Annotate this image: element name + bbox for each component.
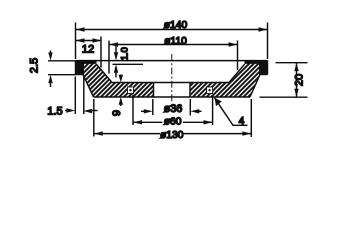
svg-text:ø36: ø36: [164, 103, 183, 115]
right lower cone edge: [250, 75, 260, 98]
dim ø110 line: [109, 42, 238, 46]
bottom face line: [94, 96, 251, 98]
bore right wall: [189, 83, 191, 98]
left lower cone edge: [83, 75, 94, 98]
dim ø36 left arrow: [141, 109, 153, 113]
dim 9 upper arrow: [119, 75, 123, 83]
thin blackened rim section right: [245, 60, 268, 74]
dim 1.0 upper arrow: [114, 45, 118, 61]
dim ø140 extension line left: [75, 23, 77, 60]
dim ø130 extension line right: [250, 99, 252, 137]
dim 1.5 extension line left: [74, 77, 76, 115]
dim ø36 extension line right: [189, 99, 191, 116]
dim 1.5 left arrow: [65, 108, 75, 112]
svg-text:ø60: ø60: [164, 116, 182, 127]
dim 1.0 lower arrow: [114, 64, 118, 77]
dim ø36 right arrow: [190, 109, 201, 113]
pin hole section left (square with axis dot): [128, 87, 134, 94]
section body right (hatched): [190, 60, 268, 97]
left outer wall edge: [75, 60, 77, 74]
dim 1.5 extension line right: [83, 77, 85, 115]
pin hole section right (square with axis dot): [207, 87, 213, 94]
svg-text:4: 4: [239, 116, 245, 127]
svg-text:ø130: ø130: [160, 130, 184, 141]
section body left (hatched): [76, 60, 154, 97]
svg-text:1.5: 1.5: [47, 105, 63, 117]
dim ø60 extension line left: [132, 95, 134, 126]
dim 1.5 right arrow: [83, 109, 97, 113]
dim 9 lower arrow: [119, 97, 123, 106]
dim 12 extension line right: [100, 37, 102, 68]
svg-text:ø140: ø140: [164, 20, 188, 31]
dim 20 extension line bottom: [260, 96, 308, 98]
dim 12 line: [76, 38, 102, 42]
dim 20 line: [294, 63, 298, 97]
dim ø60 label: [162, 116, 183, 127]
dim ø110 extension line right: [237, 41, 239, 71]
hub top surface line: [112, 82, 229, 84]
centerline: [171, 54, 173, 103]
svg-text:2.5: 2.5: [29, 58, 41, 74]
svg-text:9: 9: [111, 110, 123, 116]
dim 2.5 lower arrow: [48, 75, 52, 87]
recess step line (1.0 step): [113, 63, 144, 65]
left wall bottom edge: [76, 74, 84, 76]
svg-text:1.0: 1.0: [119, 47, 130, 60]
svg-text:12: 12: [82, 43, 94, 55]
leader for pin hole (4): [215, 98, 248, 126]
dim ø36 extension line left: [152, 99, 154, 115]
dim ø140 extension line right: [267, 23, 269, 60]
dim ø60 line: [133, 120, 213, 124]
svg-text:20: 20: [294, 74, 306, 86]
left inner cone edge: [97, 64, 113, 82]
dim ø130 extension line left: [93, 99, 95, 137]
dim ø110 extension line left: [108, 41, 110, 74]
thin blackened rim section left: [76, 60, 97, 74]
svg-text:ø110: ø110: [164, 36, 187, 47]
bore left wall: [153, 83, 155, 98]
right outer wall edge: [267, 60, 269, 74]
top surface line: [76, 60, 268, 62]
dim ø60 extension line right: [212, 95, 214, 126]
dim 2.5 upper arrow: [48, 51, 52, 61]
dim ø140 line: [76, 27, 268, 31]
dim 20 extension line top: [276, 62, 308, 64]
dim 2.5 extension line top: [48, 60, 76, 62]
dim ø130 line: [94, 131, 252, 135]
dim 2.5 extension line bottom: [48, 74, 76, 76]
right inner cone edge: [229, 64, 245, 82]
dim ø130 label: [160, 130, 184, 141]
right wall bottom edge: [260, 74, 268, 76]
